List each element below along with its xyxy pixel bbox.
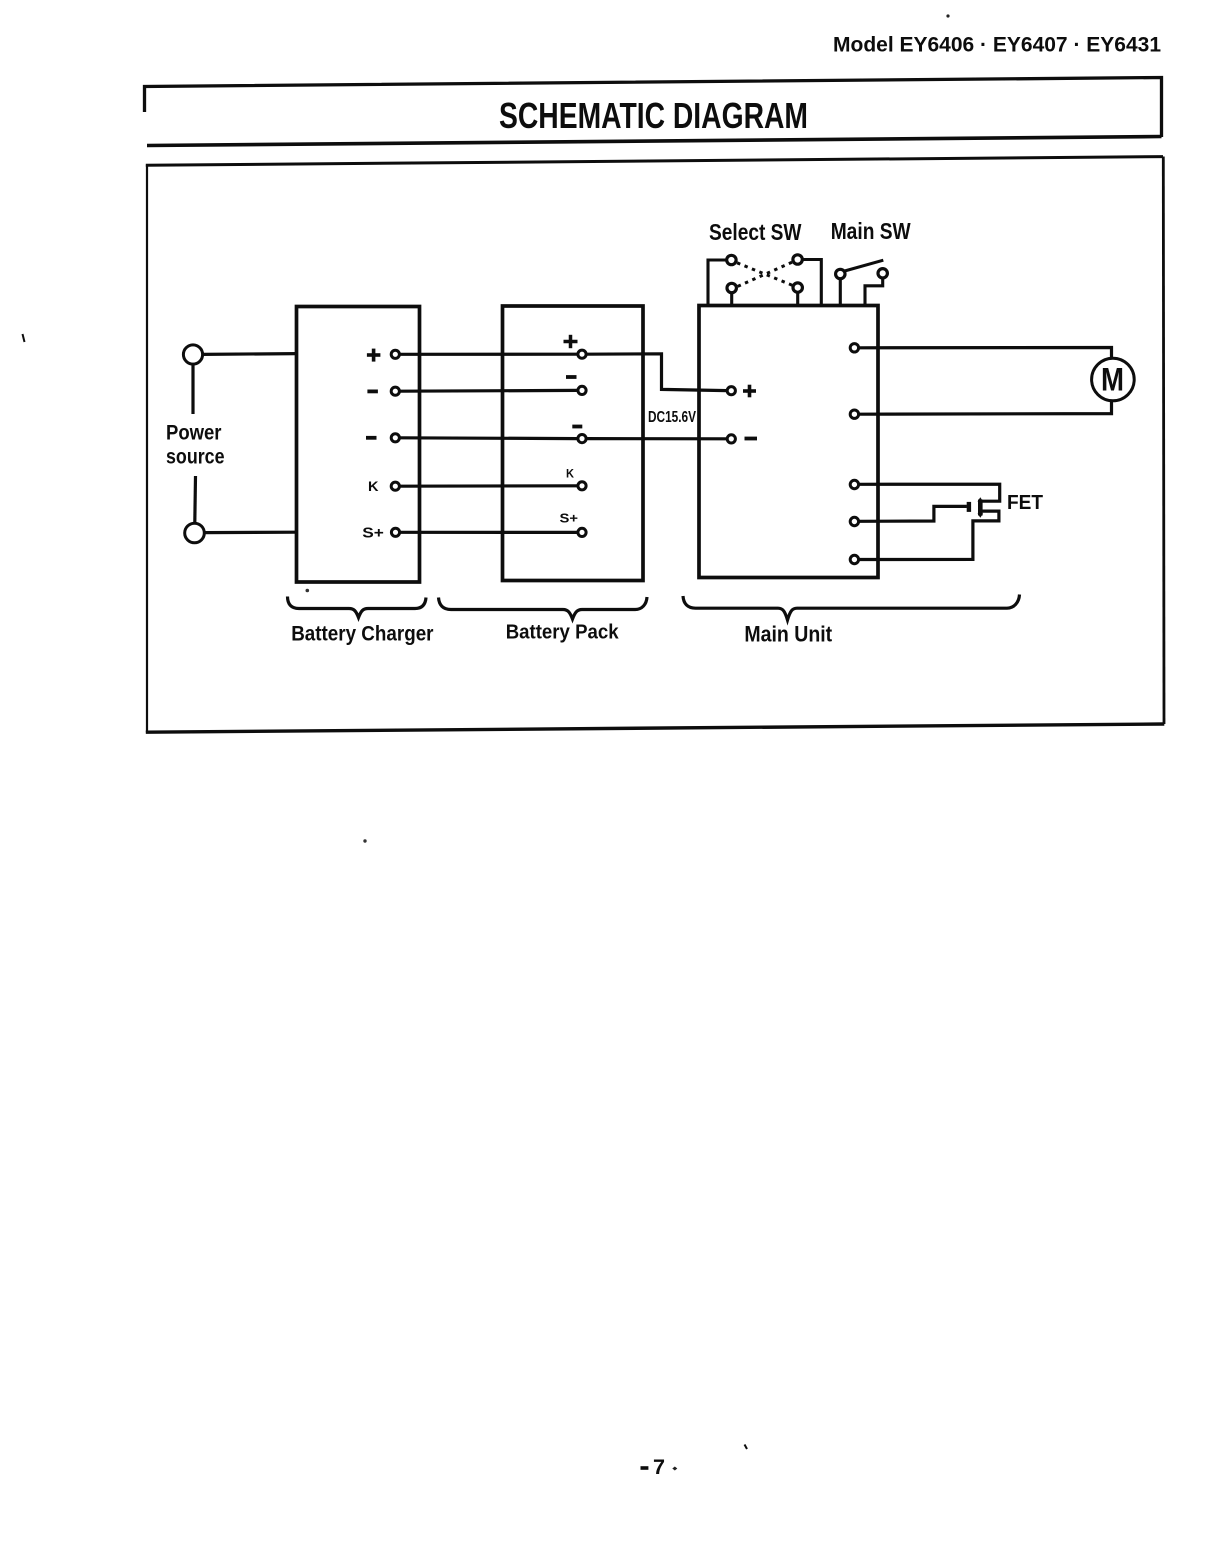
svg-text:7: 7 xyxy=(653,1456,665,1479)
svg-text:S+: S+ xyxy=(362,526,384,542)
svg-text:SCHEMATIC DIAGRAM: SCHEMATIC DIAGRAM xyxy=(499,95,808,136)
svg-text:Select SW: Select SW xyxy=(709,219,802,245)
svg-text:Main SW: Main SW xyxy=(831,218,911,244)
svg-text:Battery Charger: Battery Charger xyxy=(291,621,434,645)
svg-text:Model EY6406 · EY6407 · EY6431: Model EY6406 · EY6407 · EY6431 xyxy=(833,34,1161,57)
svg-text:S+: S+ xyxy=(560,511,579,526)
svg-text:Battery Pack: Battery Pack xyxy=(506,621,620,643)
svg-text:DC15.6V: DC15.6V xyxy=(648,409,696,426)
svg-text:Main Unit: Main Unit xyxy=(744,621,832,646)
svg-text:source: source xyxy=(166,445,225,469)
svg-text:Power: Power xyxy=(166,421,222,445)
svg-text:M: M xyxy=(1101,362,1124,398)
svg-text:K: K xyxy=(368,478,379,494)
svg-text:K: K xyxy=(566,466,574,480)
svg-text:FET: FET xyxy=(1007,492,1043,514)
